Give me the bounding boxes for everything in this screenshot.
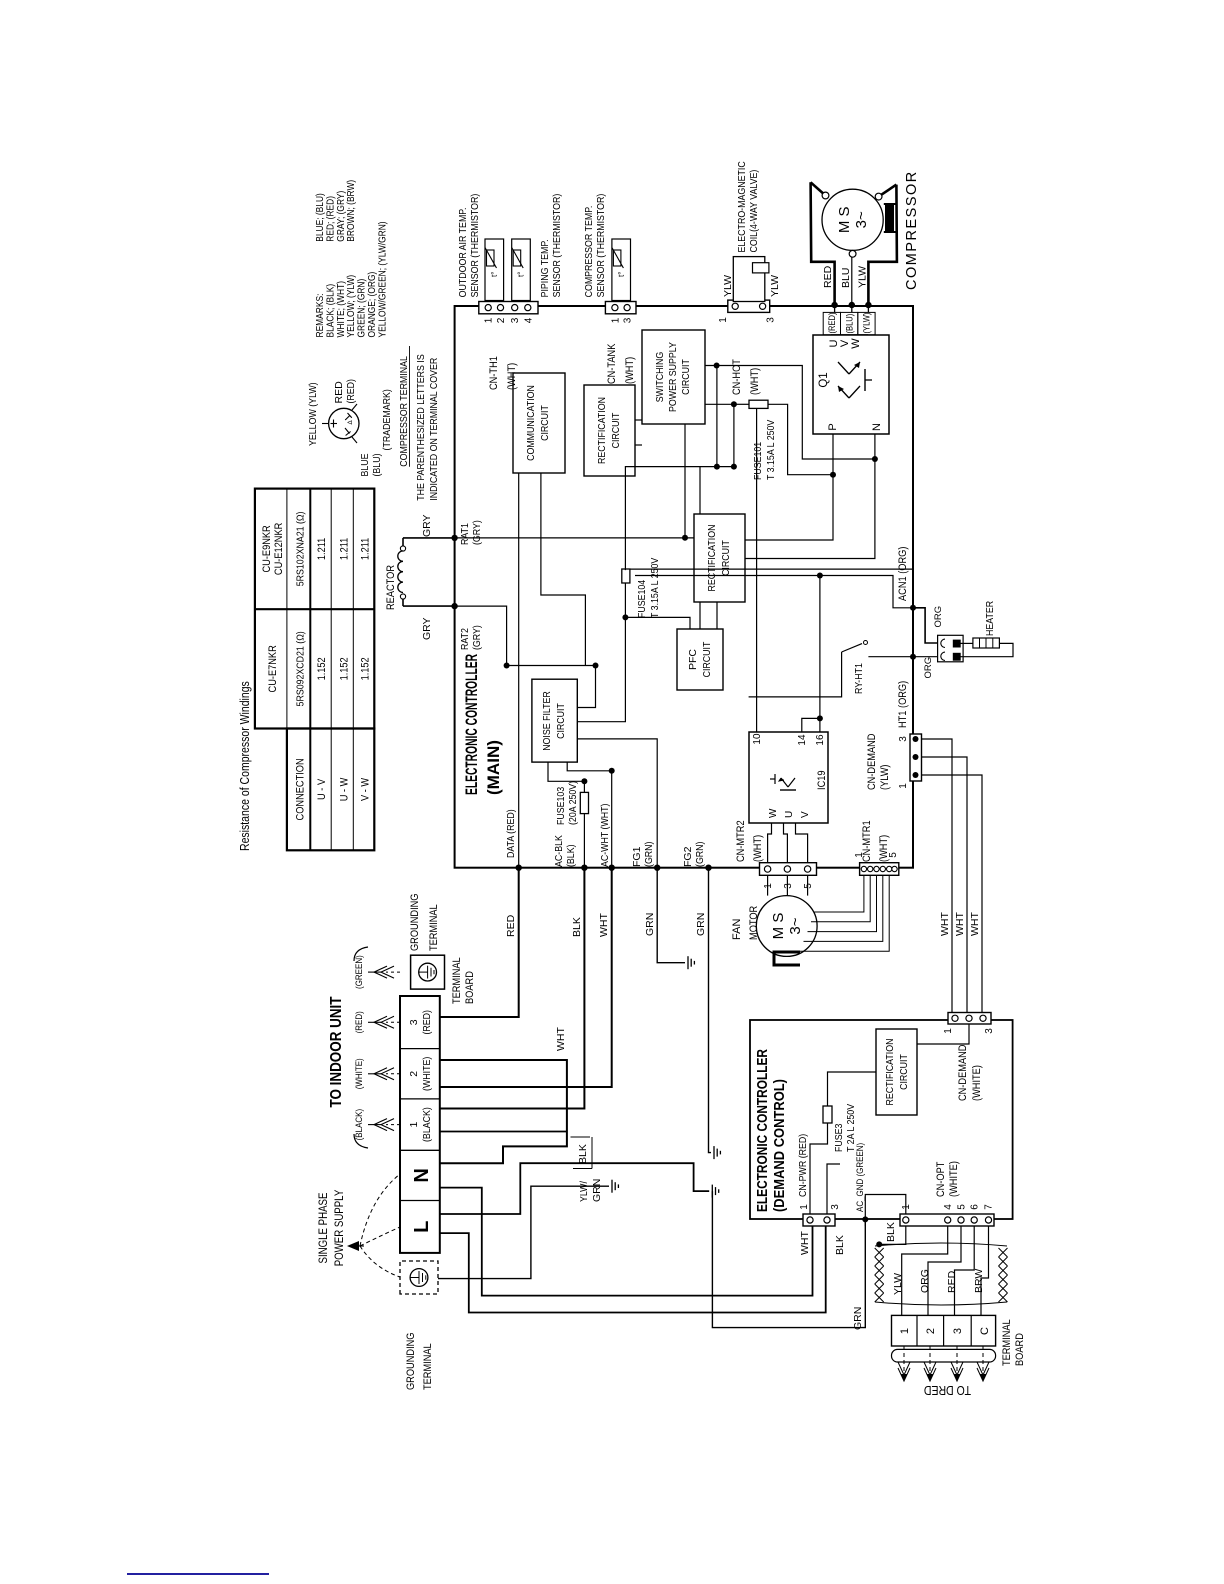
svg-text:(WHITE): (WHITE) bbox=[971, 1065, 983, 1101]
svg-text:TERMINAL: TERMINAL bbox=[422, 1343, 434, 1390]
svg-text:1: 1 bbox=[898, 783, 909, 789]
svg-text:3: 3 bbox=[898, 736, 909, 742]
svg-text:RED: RED bbox=[333, 381, 345, 404]
svg-text:FAN: FAN bbox=[731, 919, 743, 940]
wire L to demand rail bbox=[440, 1163, 709, 1214]
indoor wire arrow (GREEN) bbox=[386, 971, 400, 973]
wire noise filter pin A bbox=[577, 666, 595, 708]
svg-text:AC-BLK: AC-BLK bbox=[553, 835, 565, 867]
svg-text:(BLU): (BLU) bbox=[844, 314, 854, 334]
wire AC-WHT from noise filter bbox=[567, 762, 612, 868]
indoor wire arrow (RED) bbox=[386, 1021, 400, 1023]
switching power supply circuit box bbox=[642, 330, 705, 424]
svg-text:(MAIN): (MAIN) bbox=[484, 740, 503, 795]
svg-text:YLW: YLW bbox=[857, 266, 869, 288]
svg-text:(WHT): (WHT) bbox=[506, 363, 518, 390]
svg-text:IC19: IC19 bbox=[816, 771, 828, 791]
svg-text:WHT: WHT bbox=[555, 1027, 567, 1051]
rectification circuit box 2 bbox=[694, 514, 745, 602]
svg-text:(RED): (RED) bbox=[827, 313, 837, 334]
svg-text:U: U bbox=[784, 811, 795, 818]
svg-text:3: 3 bbox=[623, 317, 634, 323]
svg-text:CIRCUIT: CIRCUIT bbox=[555, 703, 567, 739]
wire CN-MTR2 pin3 to IC19 U bbox=[784, 823, 788, 863]
svg-text:CN-DEMAND: CN-DEMAND bbox=[957, 1044, 969, 1101]
terminal board strip bbox=[400, 996, 440, 1253]
svg-text:FUSE104: FUSE104 bbox=[636, 580, 648, 618]
wire rect demand to cn-demand white bbox=[917, 1024, 969, 1044]
wire AC-BLK from noise filter through fuse103 bbox=[548, 762, 584, 781]
svg-text:TERMINAL: TERMINAL bbox=[428, 904, 440, 951]
compressor housing bbox=[811, 182, 826, 195]
svg-text:ORG: ORG bbox=[919, 1269, 931, 1293]
svg-text:GRY: GRY bbox=[421, 617, 433, 640]
svg-text:(BLK): (BLK) bbox=[565, 845, 577, 868]
svg-text:SINGLE PHASE: SINGLE PHASE bbox=[318, 1192, 330, 1263]
svg-text:FG1: FG1 bbox=[631, 846, 643, 867]
transistor module Q1 bbox=[813, 335, 889, 434]
svg-text:GRAY; (GRY): GRAY; (GRY) bbox=[336, 191, 347, 242]
svg-text:(WHT): (WHT) bbox=[752, 835, 764, 862]
node fuse104 branch bbox=[622, 614, 628, 620]
svg-text:1: 1 bbox=[408, 1122, 420, 1128]
svg-text:PFC: PFC bbox=[687, 649, 699, 670]
connector CN-DEMAND (WHITE) on demand board bbox=[948, 1013, 991, 1025]
svg-text:COMMUNICATION: COMMUNICATION bbox=[525, 385, 537, 461]
wire cn-pwr to fuse3 bbox=[810, 1123, 828, 1214]
svg-text:FUSE101: FUSE101 bbox=[752, 442, 764, 480]
wire switching to RAT1 rail bbox=[684, 424, 686, 538]
svg-text:U - V: U - V bbox=[316, 778, 328, 800]
svg-text:RAT2: RAT2 bbox=[459, 628, 471, 650]
wire rect2 top to 467 rail bbox=[699, 467, 701, 514]
svg-text:RECTIFICATION: RECTIFICATION bbox=[596, 397, 608, 464]
wire BRW to terminal C bbox=[981, 1226, 989, 1315]
wire ACN1 to heater plug bbox=[913, 608, 940, 643]
svg-text:C: C bbox=[979, 1327, 991, 1335]
heater element bbox=[973, 638, 1000, 648]
node noise filter tap bbox=[593, 663, 599, 669]
svg-text:(GRY): (GRY) bbox=[471, 520, 483, 545]
svg-text:(YLW): (YLW) bbox=[862, 313, 872, 334]
wire twisted shield bottom bbox=[875, 1302, 1007, 1305]
node compressor YLW on board edge bbox=[865, 302, 871, 308]
compressor motor M S 3~ bbox=[822, 189, 883, 250]
node RAT1 bbox=[451, 535, 457, 541]
svg-text:1.211: 1.211 bbox=[338, 538, 350, 560]
wire RAT2 net vertical bbox=[507, 665, 596, 667]
svg-text:BLK: BLK bbox=[885, 1222, 897, 1242]
connector CN-DEMAND (YLW) bbox=[910, 734, 922, 781]
wire demand 3 bbox=[922, 739, 953, 1013]
wire ACN1 from fuse104 bbox=[630, 568, 913, 570]
svg-text:CN-DEMAND: CN-DEMAND bbox=[866, 733, 878, 790]
node heater rail b bbox=[817, 573, 823, 579]
node HT1 on edge bbox=[910, 654, 916, 660]
svg-text:OUTDOOR AIR TEMP.: OUTDOOR AIR TEMP. bbox=[457, 208, 469, 298]
node DATA on edge bbox=[516, 865, 522, 871]
wire RED data to terminal 3 bbox=[440, 868, 519, 1017]
ground YLW/GRN bbox=[611, 1180, 613, 1193]
svg-text:RAT1: RAT1 bbox=[459, 523, 471, 545]
svg-text:TERMINAL: TERMINAL bbox=[1001, 1319, 1013, 1366]
node P rail junction bbox=[830, 472, 836, 478]
svg-text:YLW/: YLW/ bbox=[578, 1181, 590, 1202]
svg-text:POWER SUPPLY: POWER SUPPLY bbox=[667, 342, 679, 412]
node BLK twisted bbox=[876, 1241, 882, 1247]
wire communication lower to RAT2 net bbox=[541, 473, 586, 666]
node RAT1 rail tap bbox=[682, 535, 688, 541]
svg-text:WHT: WHT bbox=[799, 1231, 811, 1255]
svg-text:M S: M S bbox=[770, 913, 787, 940]
wire heater rail to fuse104 line bbox=[635, 575, 820, 577]
wire ground YLW/GRN bbox=[438, 1186, 609, 1278]
communication circuit box bbox=[513, 373, 565, 473]
wire ACN1 interior bbox=[820, 576, 913, 608]
svg-text:GRN: GRN bbox=[644, 913, 656, 936]
relay RY-HT1 bbox=[749, 652, 842, 697]
connector CN-MTR1 (WHT) bbox=[860, 863, 899, 876]
labels (RED)(BLU)(YLW) bbox=[823, 312, 840, 334]
svg-text:6: 6 bbox=[970, 1204, 981, 1210]
wire PFC to rect2 a bbox=[699, 602, 701, 629]
fuse FUSE101 T3.15AL250V bbox=[749, 400, 768, 408]
wire switching supply to fuse101 bbox=[705, 403, 734, 405]
wire communication to DATA bbox=[518, 473, 520, 868]
svg-text:ELECTRONIC CONTROLLER: ELECTRONIC CONTROLLER bbox=[755, 1049, 771, 1212]
svg-text:RED: RED bbox=[822, 265, 834, 288]
node 467 rail to fuse101 bbox=[731, 464, 737, 470]
svg-text:GRY: GRY bbox=[421, 514, 433, 537]
svg-text:SENSOR (THERMISTOR): SENSOR (THERMISTOR) bbox=[595, 194, 607, 298]
bracket around indoor wires bbox=[354, 1134, 368, 1148]
wire demand 2 bbox=[922, 757, 968, 1013]
svg-text:Δ: Δ bbox=[347, 420, 354, 425]
wire BLK from CN-OPT pin1 bbox=[879, 1226, 906, 1244]
wires fan motor to CN-MTR1 bbox=[815, 875, 864, 912]
wire CN-MTR2 pin5 to IC19 V bbox=[796, 823, 808, 863]
wire cn-pwr pin3 into board bbox=[827, 1164, 840, 1214]
connector CN-OPT (WHITE) bbox=[900, 1214, 994, 1226]
wire IC19 pin10 to fuse101 bbox=[756, 408, 758, 732]
svg-text:REMARKS:: REMARKS: bbox=[315, 294, 326, 338]
svg-text:1: 1 bbox=[763, 883, 774, 889]
svg-text:GRN: GRN bbox=[591, 1179, 603, 1202]
svg-text:GREEN; (GRN): GREEN; (GRN) bbox=[357, 279, 368, 338]
svg-text:CN-MTR2: CN-MTR2 bbox=[735, 820, 747, 862]
wire rect1 to switching 2 bbox=[635, 444, 642, 446]
svg-text:AC-WHT (WHT): AC-WHT (WHT) bbox=[599, 804, 611, 868]
svg-text:YLW: YLW bbox=[722, 275, 734, 297]
svg-text:(WHT): (WHT) bbox=[624, 357, 636, 384]
svg-text:SWITCHING: SWITCHING bbox=[654, 352, 666, 403]
node RAT2 net corner bbox=[504, 663, 510, 669]
svg-text:2: 2 bbox=[925, 1328, 937, 1334]
svg-text:T 3.15A L 250V: T 3.15A L 250V bbox=[649, 558, 661, 618]
rectification circuit box demand bbox=[876, 1029, 917, 1115]
node RAT2 bbox=[451, 603, 457, 609]
svg-text:V - W: V - W bbox=[359, 777, 371, 801]
svg-text:GROUNDING: GROUNDING bbox=[409, 894, 421, 952]
svg-text:CIRCUIT: CIRCUIT bbox=[539, 405, 551, 441]
wire L to CN-PWR BLK bbox=[440, 1226, 826, 1313]
svg-text:CN-HOT: CN-HOT bbox=[731, 359, 743, 395]
dashed leads to L N and ground bbox=[360, 1246, 400, 1277]
svg-text:(DEMAND CONTROL): (DEMAND CONTROL) bbox=[772, 1079, 788, 1212]
svg-text:Resistance of Compressor Windi: Resistance of Compressor Windings bbox=[238, 681, 252, 851]
svg-text:PIPING TEMP.: PIPING TEMP. bbox=[539, 239, 551, 297]
svg-text:14: 14 bbox=[797, 734, 808, 746]
wire CN-MTR2 pin1 to IC19 W bbox=[768, 823, 772, 863]
wire noise filter pin B to fuse104 bbox=[577, 583, 625, 722]
svg-text:5: 5 bbox=[803, 883, 814, 889]
node compressor BLU on board edge bbox=[849, 302, 855, 308]
connector CN-MTR2 (WHT) bbox=[760, 863, 817, 876]
wire RAT1 gray to reactor bbox=[403, 537, 455, 539]
svg-text:3: 3 bbox=[408, 1019, 420, 1025]
svg-text:2: 2 bbox=[408, 1071, 420, 1077]
svg-text:FG2: FG2 bbox=[682, 846, 694, 867]
node AC-BLK on edge bbox=[581, 865, 587, 871]
wire WHT to terminal 2 bbox=[440, 868, 612, 1087]
svg-text:BLK: BLK bbox=[571, 917, 583, 937]
svg-text:(BLU): (BLU) bbox=[371, 454, 383, 477]
wire fuse101 to P rail bbox=[768, 404, 833, 474]
svg-text:(WHT): (WHT) bbox=[749, 368, 761, 395]
svg-text:BLUE; (BLU): BLUE; (BLU) bbox=[315, 193, 326, 242]
wire RED into Q1 bbox=[834, 305, 836, 312]
ground demand feed bbox=[711, 1185, 713, 1198]
wire IC19 pin16 bbox=[819, 718, 821, 732]
connector CN-TH1 (WHT) bbox=[479, 302, 538, 314]
wire switching tap down to 467 rail bbox=[716, 365, 718, 466]
svg-text:1: 1 bbox=[484, 317, 495, 323]
node FG1 on edge bbox=[654, 865, 660, 871]
svg-text:COMPRESSOR TERMINAL: COMPRESSOR TERMINAL bbox=[398, 356, 410, 467]
svg-text:DATA (RED): DATA (RED) bbox=[505, 809, 517, 858]
svg-text:CONNECTION: CONNECTION bbox=[294, 758, 306, 820]
svg-text:7: 7 bbox=[984, 1204, 995, 1210]
svg-text:RED: RED bbox=[946, 1270, 958, 1293]
svg-text:3~: 3~ bbox=[853, 211, 870, 228]
svg-text:MOTOR: MOTOR bbox=[748, 906, 760, 940]
svg-text:5RS102XNA21 (Ω): 5RS102XNA21 (Ω) bbox=[294, 512, 306, 587]
compressor crankcase band bbox=[886, 204, 894, 232]
svg-text:COMPRESSOR TEMP.: COMPRESSOR TEMP. bbox=[583, 206, 595, 298]
wire jumper N to 2 bbox=[440, 1060, 567, 1163]
svg-text:BLACK; (BLK): BLACK; (BLK) bbox=[325, 284, 336, 338]
fuse FUSE104 T3.15AL250V bbox=[622, 569, 630, 583]
svg-text:SENSOR (THERMISTOR): SENSOR (THERMISTOR) bbox=[551, 194, 563, 298]
wire FG2 to chassis ground bbox=[709, 868, 712, 1153]
wire YLW into Q1 bbox=[867, 305, 869, 312]
svg-text:(WHITE): (WHITE) bbox=[354, 1058, 365, 1089]
wire BLU into Q1 bbox=[851, 305, 853, 312]
svg-text:1.211: 1.211 bbox=[316, 538, 328, 560]
svg-text:T 3.15A L 250V: T 3.15A L 250V bbox=[765, 420, 777, 480]
wire Q1 N rail bbox=[745, 434, 875, 559]
svg-text:COMPRESSOR: COMPRESSOR bbox=[904, 170, 920, 290]
svg-text:WHITE; (WHT): WHITE; (WHT) bbox=[336, 281, 347, 338]
svg-text:YLW: YLW bbox=[892, 1273, 904, 1295]
svg-text:1.152: 1.152 bbox=[316, 657, 328, 680]
svg-text:RED: RED bbox=[505, 914, 517, 937]
ground FG2 bbox=[713, 1146, 715, 1159]
svg-text:ORG: ORG bbox=[933, 606, 944, 628]
wire PFC to rect2 b bbox=[716, 602, 718, 629]
svg-text:(YLW): (YLW) bbox=[879, 765, 891, 791]
wire ORG to terminal 2 bbox=[928, 1226, 961, 1315]
IC19 bbox=[749, 732, 828, 823]
indoor wire arrow (WHITE) bbox=[386, 1073, 400, 1075]
svg-text:NOISE FILTER: NOISE FILTER bbox=[541, 691, 553, 751]
svg-text:3: 3 bbox=[984, 1028, 995, 1034]
svg-text:1.211: 1.211 bbox=[359, 538, 371, 560]
svg-text:GROUNDING: GROUNDING bbox=[405, 1333, 417, 1391]
terminal board demand (1 2 3 C) bbox=[892, 1315, 996, 1346]
fuse FUSE3 T2AL250V bbox=[823, 1106, 832, 1123]
svg-text:BLU: BLU bbox=[840, 268, 852, 288]
svg-text:YELLOW/GREEN; (YLW/GRN): YELLOW/GREEN; (YLW/GRN) bbox=[377, 221, 388, 337]
svg-text:(BLACK): (BLACK) bbox=[421, 1107, 433, 1142]
svg-text:RECTIFICATION: RECTIFICATION bbox=[884, 1039, 896, 1106]
svg-text:(TRADEMARK): (TRADEMARK) bbox=[381, 389, 393, 450]
svg-text:ELECTRO-MAGNETIC: ELECTRO-MAGNETIC bbox=[736, 161, 748, 253]
svg-text:REACTOR: REACTOR bbox=[385, 565, 397, 610]
svg-text:CN-PWR (RED): CN-PWR (RED) bbox=[797, 1134, 809, 1197]
svg-text:CN-TH1: CN-TH1 bbox=[488, 356, 500, 390]
wire switching supply to N rail bbox=[705, 366, 875, 460]
svg-text:W: W bbox=[850, 338, 862, 349]
svg-text:GRN: GRN bbox=[695, 913, 707, 936]
thermistor piping sensor bbox=[514, 239, 516, 302]
svg-text:1: 1 bbox=[799, 1204, 810, 1210]
svg-text:ACN1 (ORG): ACN1 (ORG) bbox=[897, 547, 909, 601]
svg-text:Q1: Q1 bbox=[818, 372, 830, 387]
svg-text:RECTIFICATION: RECTIFICATION bbox=[706, 525, 718, 592]
svg-text:V: V bbox=[800, 811, 811, 818]
svg-text:BRW: BRW bbox=[973, 1269, 985, 1293]
fan motor mount bracket bbox=[774, 952, 800, 965]
node switching supply tap bbox=[714, 363, 720, 369]
wire AC_GND to CN-OPT pin1 bbox=[865, 1195, 906, 1220]
wire RED to terminal 3 bbox=[955, 1226, 975, 1315]
wires heater element bbox=[960, 642, 973, 644]
twisted pair marks bbox=[875, 1248, 884, 1302]
wire rect1 to switching 1 bbox=[635, 419, 642, 421]
svg-text:(WHITE): (WHITE) bbox=[421, 1057, 433, 1091]
svg-text:5RS092XCD21 (Ω): 5RS092XCD21 (Ω) bbox=[294, 631, 306, 706]
svg-text:1: 1 bbox=[899, 1328, 911, 1334]
svg-text:3: 3 bbox=[783, 883, 794, 889]
svg-text:ELECTRONIC CONTROLLER: ELECTRONIC CONTROLLER bbox=[462, 654, 481, 795]
svg-text:THE PARENTHESIZED LETTERS IS: THE PARENTHESIZED LETTERS IS bbox=[415, 354, 427, 500]
ELECTRONIC CONTROLLER (DEMAND CONTROL) board outline bbox=[750, 1020, 1013, 1219]
svg-text:N: N bbox=[871, 423, 883, 431]
svg-text:(WHITE): (WHITE) bbox=[948, 1161, 960, 1197]
svg-text:CN-TANK: CN-TANK bbox=[606, 343, 618, 384]
svg-text:1: 1 bbox=[901, 1204, 912, 1210]
svg-text:CIRCUIT: CIRCUIT bbox=[680, 359, 692, 395]
svg-text:L: L bbox=[411, 1221, 433, 1233]
svg-text:BROWN; (BRW): BROWN; (BRW) bbox=[346, 180, 357, 242]
wire terminal1 tap to jumper bbox=[440, 1131, 567, 1133]
svg-text:ORG: ORG bbox=[923, 657, 934, 679]
ELECTRONIC CONTROLLER (MAIN) board outline bbox=[455, 306, 913, 868]
grounding terminal bottom dashed box bbox=[400, 1261, 438, 1294]
svg-text:10: 10 bbox=[752, 733, 763, 745]
power supply arrow bbox=[347, 1241, 359, 1251]
svg-text:CU-E12NKR: CU-E12NKR bbox=[273, 523, 285, 575]
svg-text:CIRCUIT: CIRCUIT bbox=[720, 540, 732, 576]
svg-text:ORANGE; (ORG): ORANGE; (ORG) bbox=[367, 272, 378, 338]
electro-magnetic coil 4-way valve bbox=[734, 257, 736, 301]
wire fuse104 branch to PFC bbox=[625, 617, 690, 629]
node N rail bbox=[872, 456, 878, 462]
svg-text:WHT: WHT bbox=[598, 913, 610, 937]
svg-text:CIRCUIT: CIRCUIT bbox=[701, 641, 713, 677]
svg-text:(BLACK): (BLACK) bbox=[354, 1109, 365, 1141]
svg-text:WHT: WHT bbox=[939, 912, 951, 936]
indoor wire arrow (BLACK) bbox=[386, 1124, 400, 1126]
svg-text:COIL(4-WAY VALVE): COIL(4-WAY VALVE) bbox=[748, 170, 760, 253]
svg-text:3: 3 bbox=[766, 317, 777, 323]
svg-text:BOARD: BOARD bbox=[464, 971, 476, 1004]
thermistor compressor temp sensor bbox=[614, 239, 616, 302]
svg-text:CN-MTR1: CN-MTR1 bbox=[861, 820, 873, 862]
node fuse101 top bbox=[731, 401, 737, 407]
thermistor outdoor air sensor bbox=[487, 239, 489, 302]
wire N to CN-PWR WHT bbox=[440, 1188, 813, 1296]
heater plug connector bbox=[938, 635, 964, 662]
connector CN-HOT (WHT) bbox=[728, 300, 770, 312]
cable clamp bbox=[892, 1349, 996, 1362]
svg-text:t°: t° bbox=[517, 272, 526, 277]
pfc circuit box bbox=[677, 629, 723, 690]
svg-text:BLK: BLK bbox=[577, 1144, 589, 1164]
footer rule bbox=[127, 1573, 269, 1575]
wire fuse3 to rectification bbox=[828, 1072, 877, 1106]
wire fuse104 to 467 rail bbox=[625, 467, 734, 571]
svg-text:HEATER: HEATER bbox=[984, 601, 996, 636]
fan motor M S 3~ bbox=[756, 896, 817, 957]
svg-text:WHT: WHT bbox=[954, 912, 966, 936]
grounding terminal top box bbox=[411, 955, 445, 989]
svg-text:W: W bbox=[768, 808, 779, 818]
svg-text:CU-E9NKR: CU-E9NKR bbox=[261, 525, 273, 572]
noise filter circuit box bbox=[532, 679, 577, 762]
svg-text:(WHT): (WHT) bbox=[878, 835, 890, 862]
wire Q1 P to rectification circuit 2 bbox=[745, 434, 833, 540]
svg-text:5: 5 bbox=[957, 1204, 968, 1210]
svg-text:t°: t° bbox=[490, 272, 499, 277]
node compressor RED on board edge bbox=[831, 302, 837, 308]
svg-text:YELLOW (YLW): YELLOW (YLW) bbox=[307, 382, 319, 446]
svg-text:FUSE3: FUSE3 bbox=[833, 1123, 845, 1152]
svg-text:HT1 (ORG): HT1 (ORG) bbox=[897, 681, 909, 728]
svg-text:TO INDOOR UNIT: TO INDOOR UNIT bbox=[328, 996, 345, 1107]
wire BLK to terminal 1 bbox=[440, 868, 584, 1109]
svg-text:(RED): (RED) bbox=[421, 1010, 433, 1035]
node FG2 on edge bbox=[705, 865, 711, 871]
wire IC19 pin14 bbox=[802, 718, 820, 732]
svg-text:(GRN): (GRN) bbox=[694, 842, 706, 868]
ground FG1 bbox=[687, 956, 689, 969]
svg-text:3~: 3~ bbox=[787, 917, 804, 934]
svg-text:GRN: GRN bbox=[852, 1307, 864, 1330]
svg-text:U - W: U - W bbox=[338, 777, 350, 801]
wire heater rail bbox=[819, 576, 821, 719]
